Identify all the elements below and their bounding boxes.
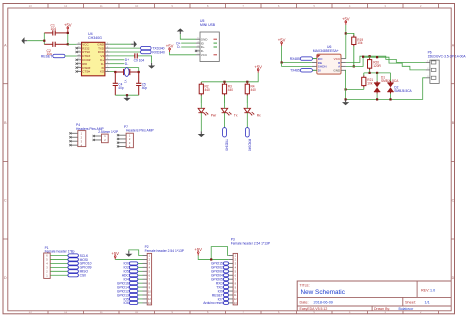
svg-text:RX485: RX485 [290, 57, 300, 61]
svg-text:Bulatovor: Bulatovor [399, 307, 415, 311]
svg-text:104: 104 [51, 27, 57, 31]
svg-text:+5V: +5V [64, 23, 72, 28]
capacitor C1 [44, 30, 68, 35]
wire A net [346, 57, 377, 66]
wire [228, 262, 230, 264]
wire [228, 294, 230, 296]
resistor R3 [222, 82, 226, 103]
svg-text:New Schematic: New Schematic [301, 289, 346, 296]
svg-text:1.0: 1.0 [430, 289, 435, 293]
wire [181, 42, 196, 44]
LED Tx [221, 108, 231, 115]
junction [281, 61, 283, 63]
wire [138, 278, 143, 280]
svg-text:10: 10 [135, 4, 139, 8]
svg-text:SMBJ6.5CA: SMBJ6.5CA [394, 89, 412, 93]
title block [297, 281, 451, 311]
wire [180, 34, 196, 39]
connector P2 [143, 245, 185, 305]
wire [115, 94, 138, 96]
wire [200, 113, 202, 132]
wire [43, 33, 45, 44]
resistor R19 [352, 33, 356, 66]
wire [138, 286, 143, 288]
resistor R20 [368, 56, 372, 73]
svg-text:Drawn By:: Drawn By: [374, 307, 390, 311]
svg-text:RXD340: RXD340 [248, 139, 252, 151]
wire [50, 270, 68, 272]
wire [65, 55, 77, 57]
ground [148, 63, 155, 69]
wire [346, 88, 364, 90]
svg-text:TXD340: TXD340 [225, 139, 229, 151]
capacitor C4 [113, 72, 118, 95]
svg-text:Rx: Rx [257, 113, 261, 117]
junction [210, 258, 212, 260]
svg-text:12: 12 [64, 4, 68, 8]
wire [138, 290, 143, 292]
net flag SCLK [68, 254, 79, 257]
svg-text:D: D [4, 276, 7, 280]
resistor R21 [362, 73, 366, 90]
connector P3 [229, 238, 271, 306]
svg-text:15EDGVC-3.5-3P-14-00A: 15EDGVC-3.5-3P-14-00A [428, 54, 467, 58]
junction [43, 40, 45, 42]
svg-text:D: D [452, 276, 455, 280]
connector P7 [117, 125, 155, 149]
wire [228, 266, 230, 268]
+5V power flag [111, 251, 119, 259]
svg-text:2.54mm 1*2P: 2.54mm 1*2P [98, 130, 119, 134]
wire [224, 113, 226, 128]
net flag RXD340 (vertical) [245, 128, 249, 137]
junction [345, 32, 347, 34]
svg-text:C: C [4, 199, 7, 203]
svg-text:DI: DI [318, 69, 321, 73]
junction [126, 94, 128, 96]
junction [114, 71, 116, 73]
connector P5 2.54mm 1*2P [93, 130, 119, 143]
capacitor C9 [134, 53, 138, 58]
net flag TXD340 [141, 46, 152, 49]
svg-text:Headers Pins AMP: Headers Pins AMP [126, 129, 154, 133]
wire [50, 266, 68, 268]
wire [246, 113, 248, 128]
LED Pwr [198, 108, 208, 115]
wire GND net [346, 70, 426, 99]
svg-text:+5V: +5V [278, 37, 286, 42]
wire [138, 282, 143, 284]
wire [138, 270, 143, 272]
svg-text:10k: 10k [357, 41, 363, 45]
svg-text:+5V: +5V [254, 64, 262, 69]
svg-text:CS0: CS0 [80, 274, 87, 278]
svg-text:+5V: +5V [194, 247, 202, 252]
wire [345, 25, 347, 59]
svg-text:RXD340: RXD340 [152, 50, 165, 54]
svg-text:XO: XO [100, 70, 105, 74]
svg-text:D-: D- [177, 45, 180, 49]
wire [313, 58, 317, 60]
+5V power flag [254, 64, 262, 72]
capacitor C2 [44, 42, 68, 47]
connector P1 [44, 246, 75, 278]
TVS diode D2 [390, 73, 392, 81]
net flag CS0 [68, 274, 79, 277]
resistor R4 [245, 82, 249, 103]
net flag RXD340 [141, 50, 152, 53]
wire [228, 298, 230, 300]
svg-text:1/1: 1/1 [425, 300, 430, 304]
junction [345, 88, 347, 90]
svg-text:Female header 2.54 1*13P: Female header 2.54 1*13P [231, 241, 271, 245]
svg-text:+5V: +5V [166, 44, 174, 49]
+5V power flag [342, 17, 350, 25]
wire B net [346, 56, 426, 62]
svg-text:440: 440 [228, 88, 234, 92]
ground [131, 41, 137, 48]
net label D- [110, 63, 125, 65]
wire [346, 33, 354, 37]
svg-text:120R: 120R [373, 64, 381, 68]
svg-text:+5V: +5V [111, 251, 119, 256]
wire [364, 72, 391, 74]
wire [228, 274, 230, 276]
ground [123, 95, 130, 101]
svg-text:C9 104: C9 104 [134, 59, 145, 63]
junction [369, 72, 371, 74]
net flag GPIO09 [68, 266, 79, 269]
wire [138, 262, 143, 264]
crystal Y1 [115, 68, 138, 77]
wire [68, 43, 77, 45]
wire [201, 73, 258, 82]
ground [198, 131, 205, 137]
IC U4 CH340G [76, 32, 110, 76]
wire [110, 71, 116, 74]
svg-text:TX485: TX485 [290, 69, 300, 73]
wire [211, 247, 229, 260]
svg-text:2018-06-09: 2018-06-09 [314, 300, 333, 304]
wire [313, 69, 317, 71]
junction [362, 56, 364, 58]
wire [282, 63, 312, 67]
svg-text:REV:: REV: [421, 289, 429, 293]
TVS diode D1 [376, 73, 378, 81]
wire [228, 278, 230, 280]
svg-text:+5V: +5V [342, 17, 350, 22]
ground [21, 37, 27, 44]
connector P6 [426, 50, 467, 83]
connector U5 MINI USB [195, 19, 219, 62]
wire [170, 52, 196, 55]
ground [125, 251, 132, 257]
svg-text:RESET: RESET [41, 54, 52, 58]
wire [181, 46, 196, 48]
svg-text:MAX3485EESA+: MAX3485EESA+ [313, 49, 339, 53]
svg-text:D-: D- [125, 62, 128, 66]
svg-text:Pwr: Pwr [211, 113, 217, 117]
wire [67, 33, 69, 44]
svg-text:13: 13 [29, 4, 33, 8]
junction [345, 98, 347, 100]
svg-text:Female header 2.54 1*13P: Female header 2.54 1*13P [145, 249, 185, 253]
svg-text:Date:: Date: [300, 300, 309, 304]
svg-text:13: 13 [29, 310, 33, 314]
svg-text:440: 440 [251, 88, 257, 92]
svg-text:CTS#: CTS# [82, 70, 90, 74]
net flag TXD340 (vertical) [223, 128, 227, 137]
junction [223, 81, 225, 83]
svg-text:GND: GND [333, 69, 341, 73]
wire [282, 46, 312, 63]
svg-text:12: 12 [64, 310, 68, 314]
svg-text:Sheet:: Sheet: [405, 300, 416, 304]
net label D+ [110, 59, 125, 61]
wire [228, 270, 230, 272]
+5V power flag [166, 44, 174, 52]
wire [198, 256, 229, 260]
svg-text:40p: 40p [142, 86, 148, 90]
wire [138, 266, 143, 268]
wire [228, 302, 230, 304]
IC U6 MAX3485EESA+ [312, 45, 346, 74]
wire [50, 274, 68, 276]
+5V power flag (RE/DE) [278, 37, 286, 45]
svg-text:IO6: IO6 [123, 301, 128, 305]
wire [50, 262, 68, 264]
wire [50, 258, 68, 260]
svg-text:TITLE:: TITLE: [300, 283, 310, 287]
wire A net staircase [377, 57, 426, 70]
wire [224, 103, 226, 108]
svg-text:Arduino reset: Arduino reset [203, 301, 223, 305]
wire [246, 103, 248, 108]
svg-text:11: 11 [100, 4, 103, 8]
svg-text:Y1: Y1 [123, 80, 127, 84]
net flag MOSI [68, 258, 79, 261]
wire [129, 250, 143, 256]
svg-text:11: 11 [100, 310, 103, 314]
wire [110, 55, 134, 57]
svg-text:CH340G: CH340G [88, 36, 102, 40]
net flag MISO [68, 270, 79, 273]
wire [110, 43, 131, 45]
svg-text:VCC: VCC [201, 53, 208, 57]
resistor R2 [199, 82, 203, 103]
wire [138, 294, 143, 296]
svg-text:10: 10 [135, 310, 139, 314]
svg-text:40p: 40p [118, 86, 124, 90]
wire [50, 255, 68, 257]
junction [353, 65, 355, 67]
wire [110, 47, 141, 49]
wire [138, 56, 152, 63]
svg-text:440: 440 [205, 88, 211, 92]
wire [138, 302, 143, 304]
svg-text:Tx: Tx [234, 113, 238, 117]
wire [228, 290, 230, 292]
wire [228, 282, 230, 284]
wire [228, 286, 230, 288]
wire [110, 51, 141, 53]
connector P4 [69, 123, 104, 147]
wire [200, 103, 202, 108]
svg-text:EasyEDA V5.5.12: EasyEDA V5.5.12 [300, 307, 328, 311]
wire [110, 68, 139, 72]
wire [115, 258, 142, 260]
ground [177, 28, 184, 34]
capacitor C5 [136, 72, 141, 95]
svg-text:MINI USB: MINI USB [200, 23, 216, 27]
svg-text:C: C [452, 199, 455, 203]
net flag GPIO10 [68, 262, 79, 265]
+5V power flag [194, 247, 202, 255]
+5V power flag [64, 23, 72, 33]
wire [138, 274, 143, 276]
svg-text:10k: 10k [367, 81, 373, 85]
LED Rx [244, 108, 254, 115]
ground [342, 99, 349, 105]
wire [27, 40, 44, 42]
wire [138, 298, 143, 300]
